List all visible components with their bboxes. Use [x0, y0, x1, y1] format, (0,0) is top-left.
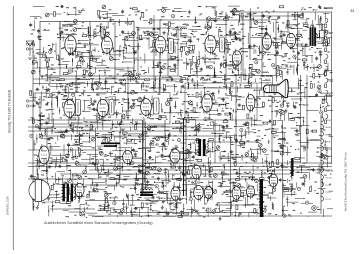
wires and components region r1c2	[60, 28, 101, 66]
pilot lamp circle	[312, 206, 317, 211]
wire hbus y163	[28, 162, 332, 164]
tube EF80 keyed AGC	[39, 134, 83, 166]
svg-text:EF 80: EF 80	[97, 88, 104, 91]
wire vbus x320 heater	[320, 115, 322, 214]
wires and components region r2c4	[120, 56, 150, 92]
tube PCL82 b	[170, 147, 180, 165]
wires and components region r0c4	[121, 8, 150, 38]
wires and components region r3c5	[151, 84, 179, 113]
wires and components region r3c6	[180, 85, 218, 119]
wire hbus y88 right	[183, 87, 300, 89]
EHT winding coil	[290, 159, 291, 176]
wire vbus x226	[225, 12, 227, 75]
left page margin rule	[12, 6, 14, 250]
tube EF80 IF1 row1	[153, 27, 166, 55]
wire vbus x160	[159, 20, 161, 92]
wires and components region r7c11	[0, 0, 1, 1]
tube row4 b	[194, 184, 204, 202]
wires and components region r6c8	[241, 170, 274, 203]
tube EF80 IF3	[97, 97, 108, 118]
svg-text:PY 81: PY 81	[230, 182, 237, 185]
IF can row2 b	[109, 100, 114, 116]
wires and components region r6c3	[91, 167, 133, 198]
mains transformer windings	[62, 185, 64, 200]
IF can row1 b	[220, 37, 225, 52]
wires and components region r3c9	[271, 85, 305, 121]
wire hbus y120 left	[28, 119, 142, 121]
wire top bus right2	[240, 15, 300, 17]
tube DY86 EHT rectifier	[267, 169, 278, 189]
wire hbus y200	[85, 200, 175, 202]
wire vbus left edge	[32, 40, 34, 210]
tube PY81 damper	[232, 185, 241, 202]
wires and components region r1c3	[90, 29, 125, 61]
wires and components region r3c7	[209, 84, 245, 114]
wire vbus x236	[235, 75, 237, 163]
wire vbus right edge	[331, 12, 333, 163]
wire hbus y174	[60, 173, 290, 175]
wires and components region r3c10	[300, 85, 333, 111]
wires and components region r5c7	[210, 139, 244, 179]
wire vbus x307	[306, 75, 308, 163]
wires and components region r5c2	[61, 141, 98, 172]
tube EF80 IF2	[60, 85, 75, 120]
wires and components region r1c7	[210, 28, 243, 63]
wires and components region r4c0	[0, 0, 1, 1]
wires and components region r2c6	[180, 56, 219, 89]
wire hbus y96 right	[256, 96, 332, 98]
wires and components region r4c10	[300, 111, 333, 151]
wire vbus x60 tuner	[59, 22, 61, 77]
wires and components region r5c1	[34, 143, 68, 175]
wire top bus right	[230, 11, 332, 13]
wire transformer top leads	[312, 20, 314, 28]
wires and components region r2c7	[209, 57, 246, 86]
line output transformer winding	[198, 140, 200, 156]
sound IF transformer core	[101, 143, 120, 145]
wire vbus x262	[261, 12, 263, 75]
svg-text:Grundig TV1 1960 TV kleinbild: Grundig TV1 1960 TV kleinbild	[8, 89, 12, 133]
wires and components region r3c3	[90, 83, 121, 120]
wires and components region r6c0	[0, 0, 1, 1]
wires and components region r3c1	[30, 85, 64, 115]
wires and components region r4c1	[30, 113, 68, 151]
tube PC92	[171, 185, 180, 202]
svg-text:EF 80: EF 80	[141, 85, 149, 89]
wires and components region r6c5	[151, 166, 186, 204]
wire vbus x186	[185, 120, 187, 196]
wires and components region r7c6	[180, 196, 211, 217]
svg-text:EF 89: EF 89	[261, 28, 268, 31]
wire vbus x230 low	[230, 136, 232, 216]
wire hbus y79	[33, 78, 183, 80]
svg-text:53: 53	[351, 9, 355, 13]
wires and components region r4c5	[150, 112, 183, 145]
heater chain labels	[326, 120, 334, 201]
wires and components region r7c7	[211, 196, 243, 220]
wires and components region r1c9	[270, 29, 302, 61]
wire vbus x243	[242, 16, 244, 75]
wires and components region r1c0	[0, 0, 1, 1]
wires and components region r7c2	[63, 195, 98, 218]
wire hbus y170	[95, 169, 332, 171]
wire vbus x215	[214, 120, 216, 163]
wires and components region r1c5	[150, 28, 183, 66]
wire hbus y131	[28, 130, 226, 132]
svg-text:PCL 84: PCL 84	[326, 149, 332, 151]
svg-text:PCF 80: PCF 80	[326, 163, 332, 165]
wires and components region r1c4	[121, 29, 158, 63]
wire vbus x183	[183, 118, 185, 196]
svg-text:Rö 10: Rö 10	[265, 79, 271, 81]
svg-text:file:///C|/TechDoc/ww/Grundig: file:///C|/TechDoc/ww/Grundig TV1 1960 T…	[344, 151, 348, 211]
antenna symbol	[26, 41, 34, 59]
wires and components region r7c0	[0, 0, 1, 1]
top-right transformer winding block	[310, 28, 317, 46]
wire bottom bus	[95, 215, 332, 217]
mains transformer core	[63, 184, 65, 202]
wire hbus y150 left	[28, 149, 100, 151]
wire vbus x250 top	[249, 12, 251, 60]
wires and components region r6c2	[61, 169, 99, 202]
wires and components region r5c4	[122, 139, 162, 175]
tube PL36 line output	[180, 163, 201, 181]
wires and components region r4c9	[271, 111, 309, 145]
wires and components region r7c3	[92, 196, 123, 217]
svg-text:PCL 84: PCL 84	[200, 78, 210, 82]
wires and components region r2c5	[152, 56, 184, 94]
wire vbus x168	[167, 52, 169, 76]
svg-text:EF 85: EF 85	[205, 26, 212, 30]
wires and components region r2c2	[61, 56, 100, 86]
svg-text:PL 36: PL 36	[180, 171, 188, 175]
wires and components region r2c1	[31, 57, 68, 89]
wire hbus y142 mid	[210, 141, 258, 143]
wires and components region r6c4	[122, 169, 158, 206]
tube row1 right b	[286, 32, 295, 50]
wires and components region r4c7	[210, 112, 244, 144]
tube row4 right small	[247, 184, 255, 199]
wires and components region r4c3	[90, 113, 124, 142]
loudspeaker circle	[29, 180, 50, 201]
svg-text:PCF 80: PCF 80	[100, 26, 109, 30]
picture tube AW53-88	[263, 80, 288, 98]
wire hbus y166	[28, 166, 332, 168]
svg-text:EF 80: EF 80	[153, 27, 161, 31]
wires and components region r3c2	[61, 83, 101, 113]
wires and components region r3c4	[121, 84, 162, 115]
wire hbus y136	[40, 135, 230, 137]
wires and components region r4c2	[60, 114, 98, 144]
tube EF85 row1	[205, 33, 216, 54]
wires and components region r0c1	[29, 6, 61, 34]
wire bottom bus2	[110, 212, 258, 214]
wires and components region r5c3	[90, 139, 131, 172]
wires and components region r7c4	[119, 197, 156, 217]
wire hbus y60	[134, 59, 183, 61]
wires and components region r0c8	[241, 8, 271, 35]
wires and components region r7c8	[242, 196, 276, 217]
wire vbus x276	[275, 20, 277, 75]
wires and components region r0c11	[0, 0, 1, 1]
audio output transformer winding	[141, 189, 153, 191]
wires and components region r5c5	[150, 138, 191, 175]
wires and components region r3c8	[243, 85, 278, 113]
loudspeaker magnet	[35, 180, 41, 202]
wires and components region r3c0	[0, 0, 1, 1]
wire vbus x90 tuner	[89, 22, 91, 77]
EHT winding core	[291, 158, 293, 176]
wire hbus y157 mid	[218, 156, 258, 158]
wires and components region r7c1	[32, 196, 67, 216]
wire vbus x165	[164, 120, 166, 150]
tube audio output	[75, 181, 84, 198]
wires and components region r2c8	[240, 58, 272, 89]
svg-text:PCL 82: PCL 82	[149, 143, 159, 147]
IF amplifier box row1	[138, 28, 178, 76]
wires and components region r6c6	[180, 170, 212, 205]
wires and components region r5c10	[301, 140, 331, 174]
left column ground	[38, 126, 41, 130]
wire hbus y68	[33, 67, 134, 69]
svg-text:Ausführliches Schaltbild eines: Ausführliches Schaltbild eines Standard-…	[44, 221, 153, 225]
wire vbus x154	[153, 20, 155, 92]
svg-text:PC 92: PC 92	[326, 199, 331, 201]
wire vbus x95	[95, 128, 97, 170]
IF can row2 a	[76, 100, 81, 116]
wires and components region r7c9	[272, 196, 302, 217]
left column capacitor	[39, 113, 42, 117]
input terminal B	[26, 48, 28, 50]
resistor right of transformer	[320, 30, 324, 37]
svg-text:PABC 80: PABC 80	[326, 169, 334, 172]
svg-text:PABC 80: PABC 80	[226, 64, 238, 68]
wires and components region r7c10	[300, 198, 333, 217]
wires and components region r1c10	[301, 28, 333, 63]
wires and components region r5c8	[240, 140, 272, 174]
tube PCL84 video	[200, 78, 212, 115]
wire hbus y127	[28, 126, 200, 128]
wires and components region r0c5	[150, 7, 187, 36]
vertical output transformer winding	[259, 181, 261, 208]
svg-text:PCC 88: PCC 88	[326, 156, 333, 158]
tube PCC88 tuner RF	[63, 24, 77, 55]
wire vbus x300 mid	[300, 75, 302, 163]
svg-text:AW 53-88: AW 53-88	[261, 74, 273, 78]
wire vbus x120	[119, 132, 121, 179]
wires and components region r6c7	[212, 169, 249, 200]
svg-text:Rö 12: Rö 12	[173, 206, 179, 208]
wire hbus y179	[28, 178, 258, 180]
wire vbus x282	[282, 120, 284, 216]
input terminal A	[26, 43, 28, 45]
tuner section box	[40, 22, 134, 77]
wires and components region r5c9	[271, 140, 310, 179]
right ladder coils and resistors	[325, 18, 328, 124]
wires and components region r5c0	[0, 0, 1, 1]
wires and components region r2c0	[0, 0, 1, 1]
wires and components region r4c4	[120, 114, 157, 145]
svg-text:PY 81: PY 81	[326, 192, 331, 194]
left column chain wire	[39, 96, 41, 131]
wire bottom bus left	[50, 208, 95, 210]
svg-text:Rö 5: Rö 5	[77, 139, 82, 141]
wires and components region r0c3	[91, 5, 125, 39]
heater chain coils	[321, 117, 324, 202]
wires and components region r4c8	[240, 114, 279, 148]
input terminal D	[26, 105, 28, 107]
wire vbus x115 tuner	[114, 22, 116, 77]
wires and components region r7c5	[150, 195, 184, 217]
audio output transformer core	[140, 192, 153, 194]
wires and components region r0c6	[180, 6, 220, 32]
tube row4 c	[205, 185, 213, 201]
wires and components region r0c9	[271, 6, 303, 33]
wire top bus mid	[150, 19, 270, 21]
tube PCL82 a	[123, 143, 159, 166]
svg-text:DY 86: DY 86	[267, 169, 275, 173]
svg-text:PC 92: PC 92	[171, 202, 179, 206]
svg-text:PCC 88: PCC 88	[63, 24, 74, 28]
svg-text:PCL 82: PCL 82	[326, 178, 332, 180]
svg-text:EF 80: EF 80	[326, 127, 331, 129]
tube row1 right a	[262, 33, 271, 51]
wire vbus x142 boost line	[142, 120, 144, 192]
input terminal C	[26, 100, 28, 102]
tube PCF80 tuner mixer	[102, 35, 113, 56]
wires and components region r4c6	[180, 113, 222, 143]
wire vbus x145	[144, 122, 146, 190]
wires and components region r0c7	[211, 6, 244, 28]
wires and components region r1c1	[31, 28, 68, 65]
line output transformer core	[199, 139, 202, 156]
svg-text:EF 80: EF 80	[75, 134, 83, 138]
wires and components region r2c9	[271, 55, 302, 90]
wires and components region r6c1	[30, 169, 65, 202]
wires and components region r1c8	[240, 28, 280, 59]
wires and components region r2c10	[300, 56, 333, 91]
wire hbus y205	[215, 204, 258, 206]
svg-text:EF 80: EF 80	[60, 85, 68, 89]
wires and components region r2c3	[89, 56, 132, 91]
wire vbus x288 top	[287, 12, 289, 33]
wire vbus x76	[75, 76, 77, 92]
vertical output transformer core	[260, 179, 263, 217]
svg-text:PL 82: PL 82	[286, 65, 294, 69]
wire vbus x128	[127, 76, 129, 120]
wires and components region r5c6	[182, 140, 216, 176]
wire hbus y75 right	[183, 75, 280, 77]
wires and components region r6c10	[301, 169, 333, 194]
wire hbus y83	[33, 83, 150, 85]
IF can row1 a	[169, 39, 174, 54]
wires and components region r0c2	[60, 5, 89, 38]
wires and components region r6c11	[0, 0, 1, 1]
tube EF80 IF4	[141, 85, 152, 118]
wires and components region r0c10	[301, 5, 334, 30]
wire hbus y185	[85, 184, 140, 186]
wire vbus x47	[46, 128, 48, 179]
svg-text:EL 95: EL 95	[286, 27, 293, 30]
svg-text:PL 36: PL 36	[326, 185, 331, 187]
video IF box row2	[52, 93, 170, 125]
wire vbus x297	[297, 12, 299, 75]
left column resistor	[39, 103, 41, 108]
svg-text:ECC 81: ECC 81	[192, 182, 201, 185]
tube row2 right	[246, 93, 255, 113]
svg-text:EF 85: EF 85	[326, 142, 331, 144]
wires and components region r1c6	[180, 28, 213, 65]
IF can row2 c	[154, 98, 160, 114]
wire vbus x272	[271, 96, 273, 163]
svg-text:20000205_1136: 20000205_1136	[6, 196, 10, 215]
wires and components region r6c9	[270, 171, 308, 201]
svg-text:Lautsprecher: Lautsprecher	[44, 201, 55, 204]
tube PABC80	[226, 49, 242, 71]
svg-text:EF 80: EF 80	[326, 134, 331, 136]
sound section box	[185, 83, 257, 120]
